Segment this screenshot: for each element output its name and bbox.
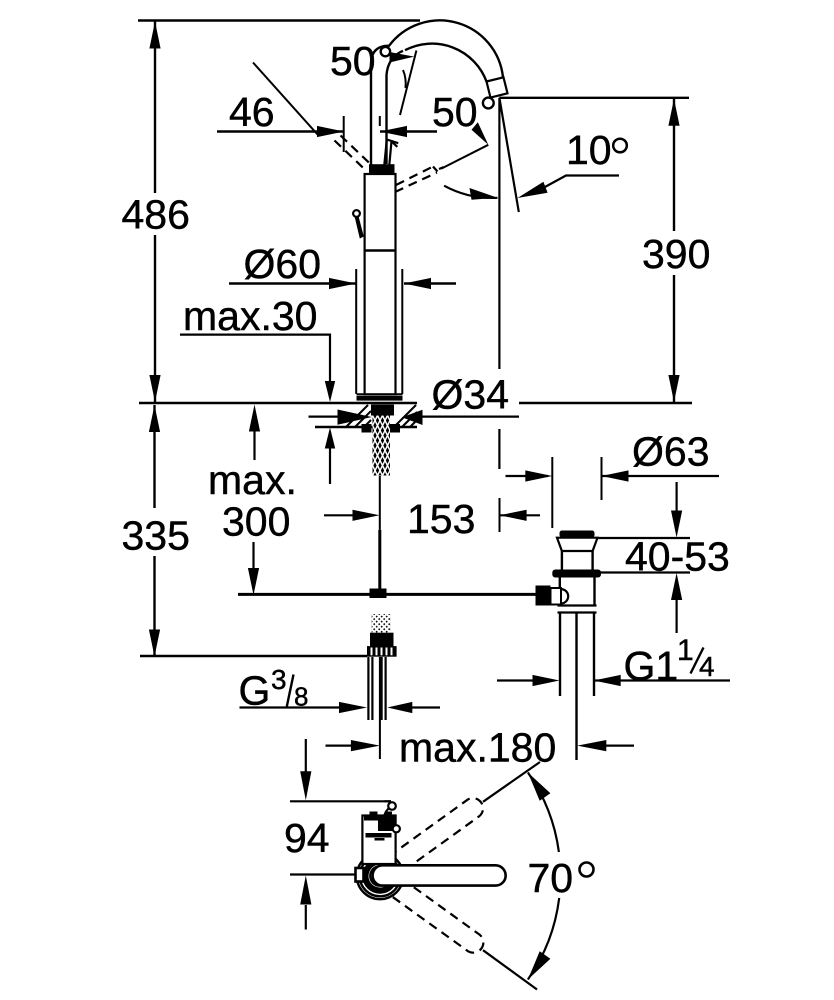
svg-text:3: 3 — [271, 664, 287, 695]
svg-text:70: 70 — [528, 855, 574, 901]
svg-text:Ø60: Ø60 — [244, 241, 322, 287]
svg-text:Ø34: Ø34 — [432, 372, 510, 418]
svg-text:50: 50 — [330, 38, 376, 84]
svg-text:486: 486 — [122, 192, 190, 238]
svg-text:4: 4 — [699, 651, 715, 682]
svg-text:50: 50 — [432, 89, 478, 135]
svg-text:1: 1 — [677, 634, 694, 667]
svg-text:94: 94 — [284, 815, 330, 861]
svg-text:153: 153 — [407, 496, 475, 542]
svg-text:40-53: 40-53 — [625, 534, 730, 580]
svg-text:max.30: max.30 — [183, 293, 317, 339]
svg-text:Ø63: Ø63 — [632, 429, 710, 475]
svg-text:10: 10 — [566, 127, 612, 173]
svg-text:max.: max. — [208, 457, 297, 503]
svg-text:390: 390 — [642, 231, 710, 277]
svg-text:300: 300 — [222, 499, 290, 545]
svg-text:46: 46 — [229, 89, 275, 135]
svg-text:335: 335 — [122, 513, 190, 559]
svg-text:G1: G1 — [624, 643, 679, 689]
svg-text:max.180: max.180 — [399, 725, 556, 771]
